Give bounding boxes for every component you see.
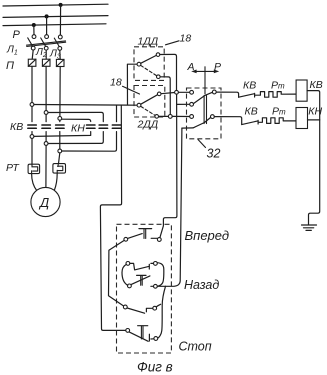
wire junction to 32 contact c1 (178, 91, 189, 93)
wire 1DD NO to junction (160, 54, 177, 90)
wire switch to fuse 2 (45, 50, 47, 59)
box 2DD (dashed) (134, 86, 165, 118)
wire bus line 1 (3, 4, 108, 6)
wire switch to fuse 1 (32, 50, 33, 59)
svg-text:КВ: КВ (10, 121, 23, 133)
wire 32 r1 to KV row (216, 92, 238, 97)
wire 2DD NC to junction (159, 115, 169, 117)
thermal contact Rt row 2 (258, 118, 296, 124)
wire Vpered left to Stop upper (109, 240, 125, 306)
switch 2DD (137, 92, 161, 118)
ground (302, 225, 317, 230)
wire 2DD NO to junction (161, 93, 175, 94)
wire KN branch 2 bottom (48, 132, 103, 144)
wire KN branch 1 bottom (34, 132, 91, 137)
contact KN pole 3 (112, 125, 121, 128)
wire phase 2 fuse to node (45, 66, 47, 110)
svg-text:Р: Р (13, 29, 21, 41)
callout line 18 left (123, 86, 140, 94)
svg-text:32: 32 (207, 147, 221, 161)
coil KV (296, 80, 307, 101)
wire phase 1 to heater (31, 138, 33, 164)
wire heater 1 to motor (31, 164, 33, 167)
callout line 18 top (166, 41, 180, 45)
contact KV pole 3 (56, 125, 65, 128)
svg-text:Фиг в: Фиг в (137, 360, 173, 375)
fuse P3 (56, 59, 64, 66)
switch R pole 1 (28, 35, 36, 50)
button Vpered (124, 229, 161, 242)
svg-text:КН: КН (71, 123, 85, 135)
arrow A-P (191, 70, 219, 74)
coil KN (296, 108, 308, 129)
svg-text:А: А (187, 61, 195, 73)
wire bus line 2 (3, 16, 108, 18)
svg-text:18: 18 (180, 33, 192, 45)
wire KN branch 1 top (62, 119, 91, 121)
node phase 1 lower (30, 135, 34, 139)
box 32 (dashed) (187, 88, 222, 139)
svg-text:КВ: КВ (245, 106, 258, 118)
wire tap drop 2 (46, 16, 48, 34)
svg-text:Назад: Назад (184, 278, 219, 292)
wire NC junction to 32 contact c3 (172, 115, 190, 117)
wire 1DD NC down (160, 77, 170, 115)
svg-text:Рт: Рт (272, 106, 286, 118)
wire phase 2 to motor (45, 145, 47, 187)
switch R pole 2 (41, 35, 49, 50)
wire heater 2 to motor (57, 164, 59, 167)
wire v1 junction down to Vpered button (160, 94, 177, 237)
thermal heater RT 2 (53, 164, 66, 174)
wire branch v1 to 32 contact c2 (177, 103, 190, 105)
wire control drop from W1 (100, 105, 125, 330)
svg-text:Д: Д (38, 195, 49, 210)
wire riser to 1DD common (127, 64, 137, 105)
wire phase 2 to KV contact (45, 114, 47, 121)
contact KV pole 1 (28, 125, 37, 128)
wire KN branch 3 top (116, 105, 118, 121)
wire KN branch 3 bottom (62, 132, 117, 152)
wire phase 2 below contact (45, 132, 47, 142)
fuse P2 (42, 59, 50, 66)
svg-text:Р: Р (214, 61, 221, 73)
button Nazad (122, 262, 164, 289)
wire phase 3 fuse to node (59, 67, 61, 117)
wire switch to fuse 3 (59, 50, 61, 59)
wire phase 3 to heater (59, 153, 60, 164)
wire phase 1 fuse to node (31, 66, 33, 102)
button Stop (123, 304, 160, 341)
thermal contact Rt row 1 (255, 92, 297, 98)
wire phase 3 below contact (59, 132, 61, 150)
node NO junction (175, 90, 179, 94)
switch 32 contacts right (211, 90, 217, 118)
svg-text:КН: КН (308, 106, 322, 118)
contact KV pole 2 (42, 125, 51, 128)
switch 32 shaft (204, 67, 206, 124)
wire 32 r2 to KN row (214, 117, 241, 125)
switch 32 blade 1 (193, 92, 212, 103)
svg-text:КВ: КВ (310, 79, 323, 91)
wire phase 3 to KV contact (59, 120, 61, 121)
wire blade 2 tail to v2 (182, 127, 193, 129)
callout line 32 (198, 140, 206, 148)
wire phase 1 below contact (31, 132, 33, 135)
contact KN pole 2 (99, 125, 108, 128)
svg-text:1ДД: 1ДД (138, 36, 159, 48)
wire v2 down to Nazad button (157, 128, 182, 286)
wire coil KN to ground bus (308, 119, 320, 121)
box buttons (dashed) (117, 224, 172, 353)
node phase 2 upper (44, 111, 48, 115)
node tap dot phase 1 on line 3 (32, 23, 36, 27)
svg-text:18: 18 (110, 77, 122, 89)
svg-text:РТ: РТ (6, 162, 20, 174)
switch 32 contacts left (190, 90, 194, 118)
fuse P1 (28, 59, 36, 66)
wire tap drop 3 (59, 5, 61, 35)
wire W1 phase 1 to 2DD common (34, 104, 137, 107)
svg-text:П: П (6, 60, 14, 72)
node phase 1 upper (30, 103, 34, 107)
switch R pole 3 (54, 35, 62, 50)
svg-text:2ДД: 2ДД (137, 119, 159, 131)
wire tap drop 1 (33, 25, 35, 35)
wire bus line 3 (3, 24, 106, 26)
wire phase 1 to KV contact (31, 106, 33, 121)
wire KN branch 2 top (48, 112, 103, 121)
box 1DD (dashed) (134, 47, 164, 81)
contact KV row 1 (239, 93, 255, 97)
node NC junction (168, 115, 172, 119)
node phase 2 lower (44, 142, 48, 146)
svg-text:Стоп: Стоп (179, 340, 212, 354)
svg-text:Вперед: Вперед (185, 228, 230, 243)
switch 1DD (137, 53, 160, 79)
motor D (31, 187, 60, 216)
node phase 3 lower (58, 149, 62, 153)
wire coil KV to ground bus (307, 91, 320, 225)
contact KN pole 1 (87, 125, 96, 128)
node phase 3 upper (58, 117, 62, 121)
svg-text:КВ: КВ (243, 80, 256, 92)
thermal heater RT 1 (28, 164, 39, 173)
switch R tie bar (double line) (27, 41, 66, 47)
node tap dot phase 3 on line 1 (59, 3, 63, 7)
wire Nazad to Stop upper right (158, 286, 166, 338)
svg-text:Рт: Рт (271, 80, 285, 92)
contact KV row 2 (242, 120, 258, 124)
switch 32 blade 2 (193, 117, 211, 128)
node tap dot phase 2 on line 2 (45, 14, 49, 18)
